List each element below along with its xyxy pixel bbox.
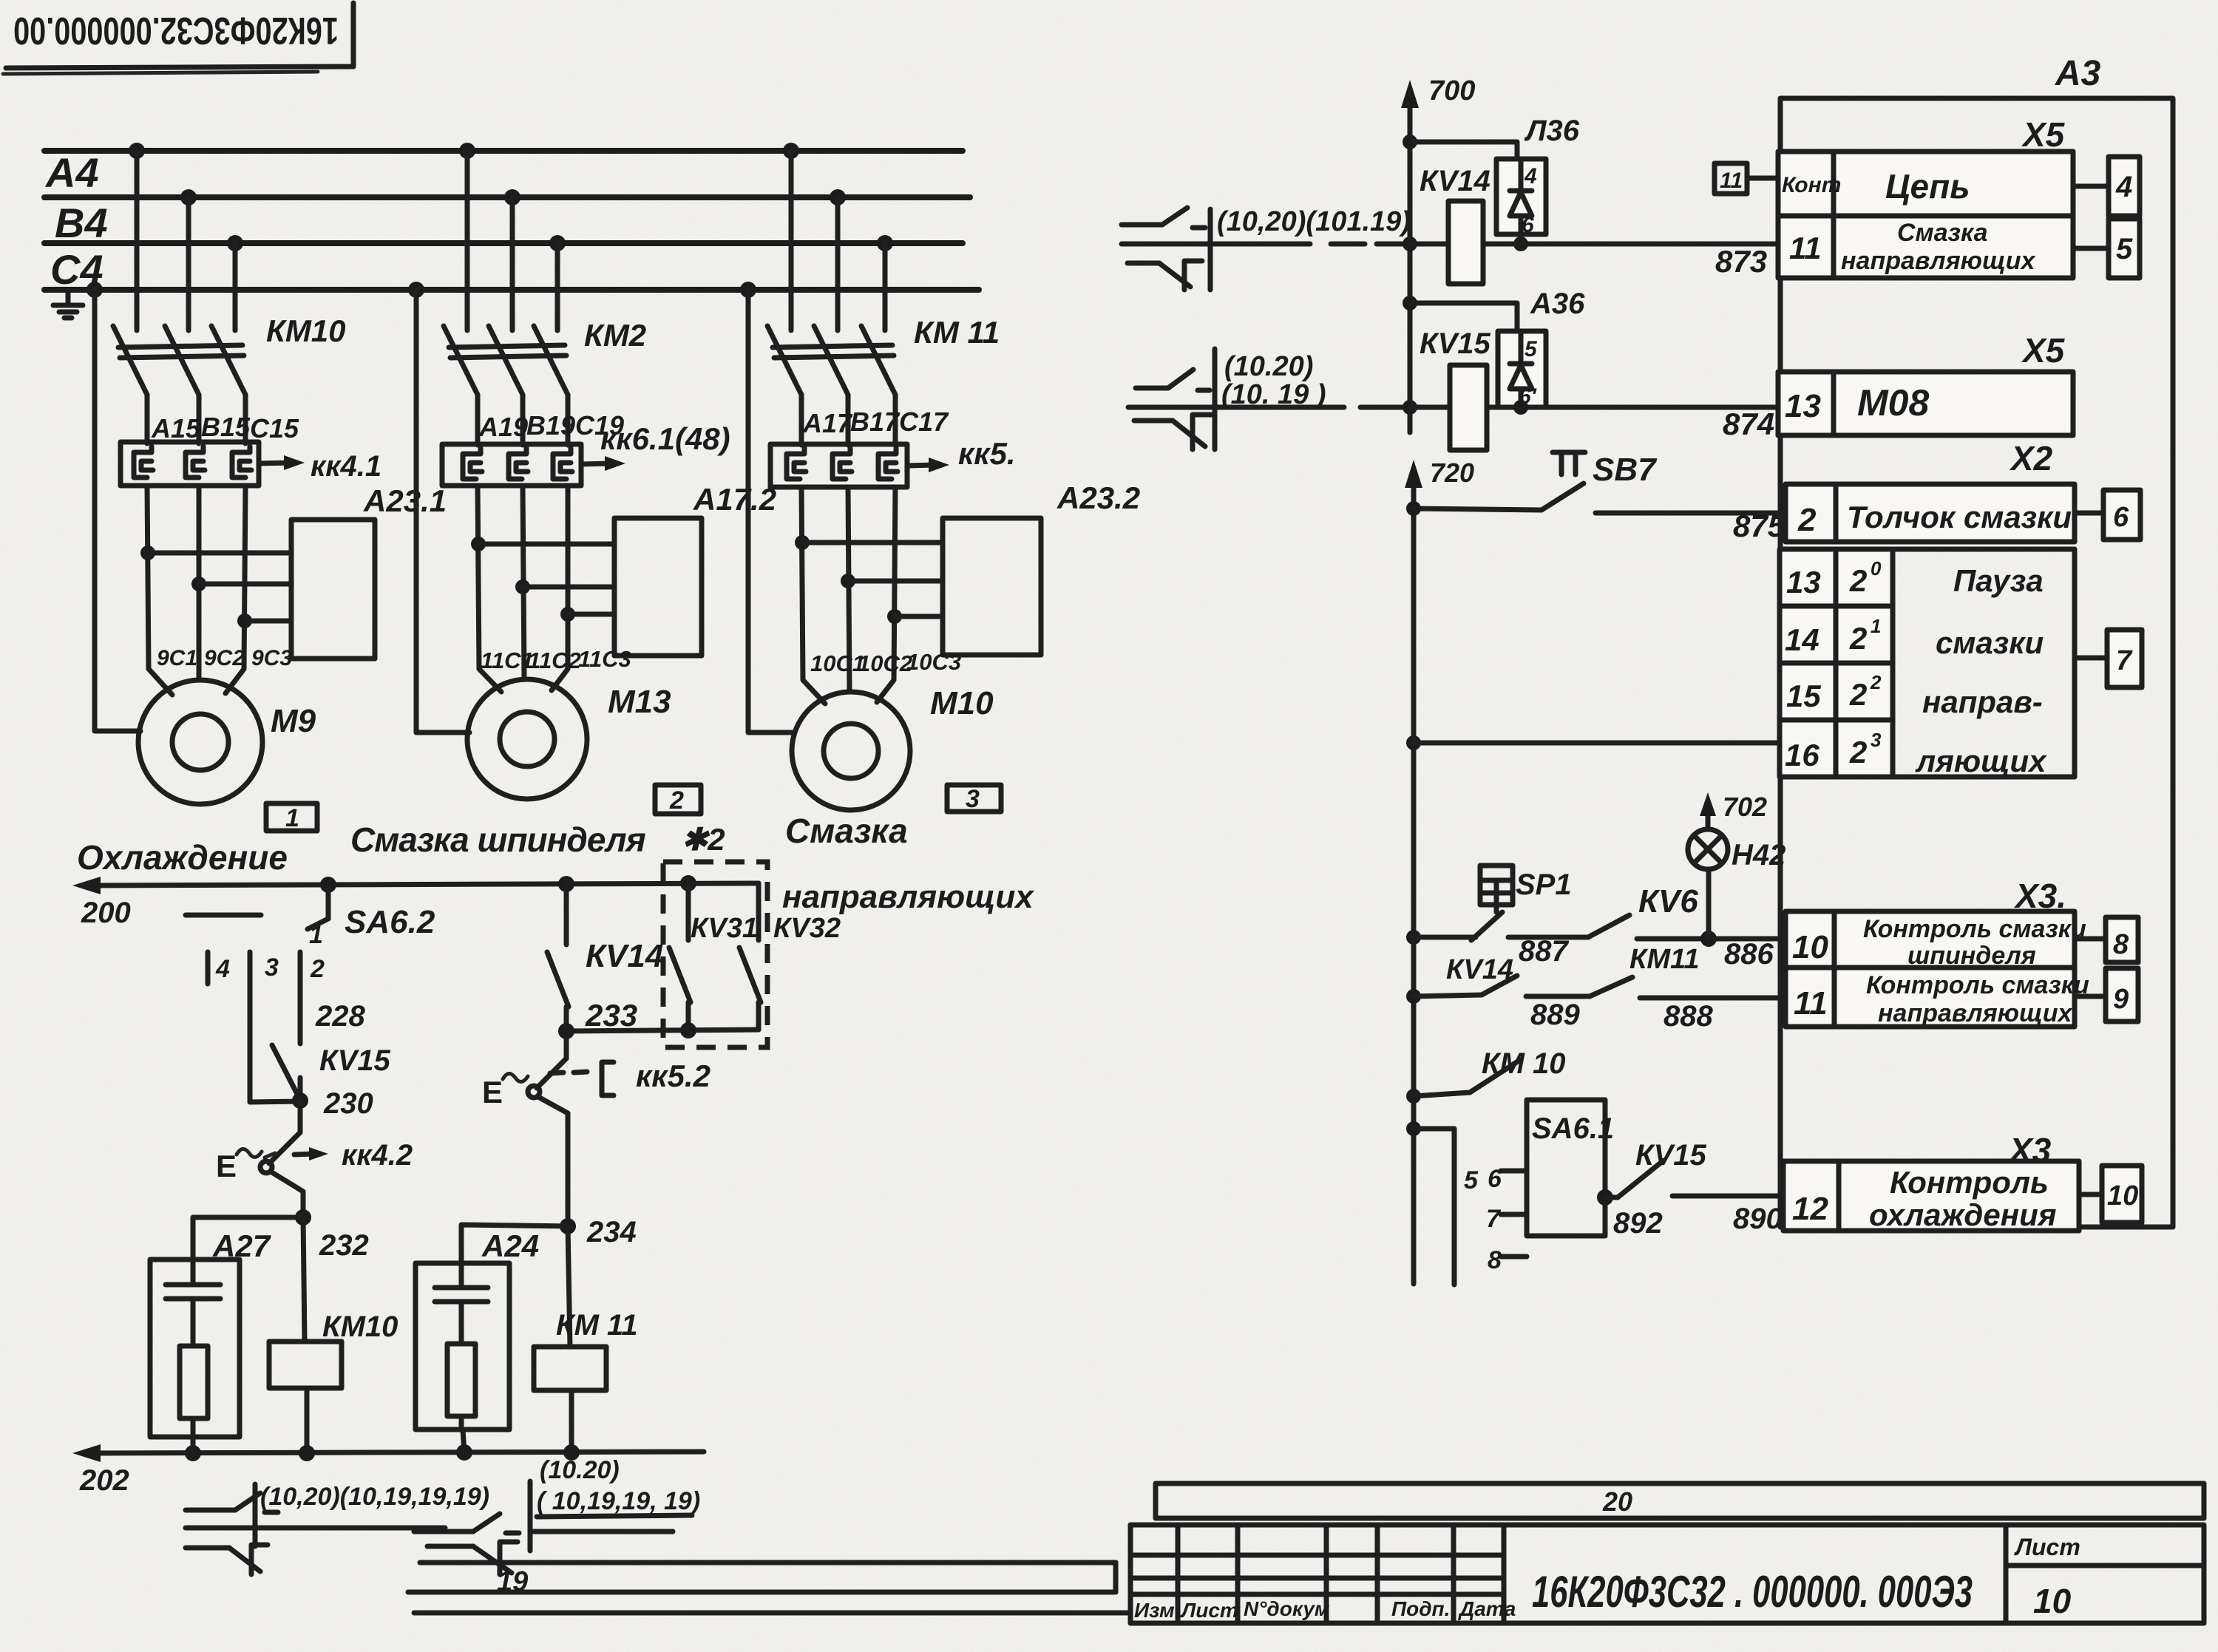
- label Контроль охлаждения: [1869, 1165, 2056, 1232]
- svg-text:А15: А15: [151, 413, 201, 443]
- svg-text:10С3: 10С3: [906, 649, 961, 675]
- svg-text:А3: А3: [2055, 54, 2101, 93]
- svg-text:5: 5: [1464, 1166, 1479, 1194]
- wire net 200 (control rail): [72, 877, 759, 894]
- contact KV32 (NO): [739, 883, 761, 1030]
- connector table X5 upper: [1778, 152, 2073, 278]
- junction dot 202/A24: [456, 1444, 472, 1461]
- callout box 1: [266, 803, 317, 832]
- junction dot C4 / M10 return line: [740, 282, 756, 298]
- junction dot pole1/A17.2: [471, 537, 486, 551]
- thermal relay KK4 heater box: [121, 442, 259, 486]
- svg-text:1: 1: [1871, 615, 1881, 637]
- wire KK4 outputs down to motor M9: [147, 486, 245, 695]
- svg-text:10С1: 10С1: [810, 650, 865, 676]
- svg-text:202: 202: [79, 1464, 129, 1497]
- svg-text:9С1: 9С1: [157, 646, 197, 670]
- svg-text:2: 2: [669, 786, 684, 815]
- svg-text:Подп.: Подп.: [1391, 1597, 1450, 1620]
- pushbutton SB7: [1414, 452, 1780, 513]
- svg-text:Смазка: Смазка: [785, 812, 908, 850]
- terminal 8: [2075, 917, 2138, 962]
- svg-text:SA6.2: SA6.2: [345, 904, 435, 940]
- svg-text:SВ7: SВ7: [1593, 452, 1658, 488]
- label Пауза смазки направляющих: [1915, 563, 2047, 778]
- junction dot C4 / M9 return line: [87, 282, 103, 298]
- svg-text:886: 886: [1724, 938, 1774, 971]
- svg-text:Охлаждение: Охлаждение: [77, 838, 288, 877]
- svg-text:1: 1: [285, 804, 299, 832]
- svg-text:Лист: Лист: [1180, 1599, 1238, 1622]
- wires poles to block A23.1: [148, 553, 291, 621]
- contact KV31 (NO): [669, 883, 691, 1030]
- svg-text:1: 1: [309, 921, 323, 949]
- svg-text:2: 2: [1849, 677, 1867, 712]
- svg-text:( 10,19,19, 19): ( 10,19,19, 19): [537, 1487, 700, 1515]
- svg-text:10С2: 10С2: [858, 650, 912, 676]
- terminal 10: [2079, 1166, 2142, 1223]
- svg-text:КМ10: КМ10: [322, 1311, 398, 1343]
- svg-text:КV14: КV14: [1446, 954, 1513, 985]
- svg-text:Пауза: Пауза: [1953, 563, 2044, 598]
- contact KV6 (NO): [1508, 915, 1780, 939]
- suppressor block A24: [416, 1263, 509, 1430]
- title block top strip with label 20: [1156, 1483, 2204, 1518]
- svg-text:Х5: Х5: [2021, 331, 2066, 370]
- pressure switch SP1: [1414, 866, 1513, 940]
- wire KK6 outputs down to motor M13: [478, 486, 568, 692]
- svg-text:КМ2: КМ2: [584, 318, 646, 353]
- wire node233 to KV31/KV32 bottoms: [566, 1030, 759, 1031]
- svg-text:А19: А19: [478, 412, 528, 442]
- svg-text:Л36: Л36: [1524, 115, 1580, 147]
- svg-text:234: 234: [586, 1216, 637, 1248]
- wire node 228: [298, 984, 303, 1044]
- wire KM11 pole drops: [791, 151, 885, 330]
- svg-text:11С3: 11С3: [578, 646, 631, 672]
- svg-text:228: 228: [315, 1000, 365, 1033]
- junction dot 200/KV14: [558, 876, 574, 892]
- wire A27 to 202: [191, 1437, 196, 1453]
- junction dot pole3/A23.2: [887, 609, 902, 624]
- callout box 3: [947, 785, 1001, 813]
- junction dot pole2/A17.2: [515, 579, 530, 594]
- svg-text:4: 4: [1524, 164, 1537, 188]
- svg-text:А17: А17: [802, 408, 853, 438]
- svg-text:Толчок смазки: Толчок смазки: [1847, 500, 2072, 534]
- svg-text:направляющих: направляющих: [782, 879, 1034, 915]
- switch SA6.1: [1501, 1100, 1605, 1257]
- svg-text:2: 2: [1849, 563, 1867, 598]
- wire 874 (KV15 coil circuit to A3): [1410, 405, 1780, 410]
- svg-text:13: 13: [1785, 388, 1821, 424]
- block A23.1: [291, 520, 375, 659]
- svg-text:SР1: SР1: [1516, 869, 1572, 901]
- wire M13 return (C4 to motor M13): [416, 290, 469, 732]
- label Смазка направляющих (2 lines): [782, 812, 1034, 915]
- svg-text:Е: Е: [216, 1149, 237, 1183]
- svg-text:890: 890: [1733, 1203, 1783, 1235]
- wire node232 to A27: [193, 1217, 303, 1260]
- contact KV15 (NO): [272, 1045, 300, 1100]
- svg-text:200: 200: [81, 897, 131, 929]
- wire KK4.2 to node 232: [271, 1172, 303, 1217]
- svg-text:Лист: Лист: [2014, 1534, 2080, 1560]
- svg-text:КМ 11: КМ 11: [556, 1309, 638, 1342]
- junction dot B4 / KM10 pole3: [227, 235, 243, 251]
- svg-text:Н42: Н42: [1732, 839, 1785, 871]
- svg-text:С15: С15: [250, 413, 299, 443]
- label Контроль смазки шпинделя: [1863, 915, 2086, 970]
- svg-text:5: 5: [1525, 337, 1538, 361]
- svg-text:С17: С17: [899, 407, 949, 437]
- junction dot bus1 / KM11 pole1: [783, 143, 799, 159]
- junction dot C4 / M13 return line: [408, 282, 424, 298]
- terminal 5: [2073, 219, 2140, 278]
- svg-text:2: 2: [1870, 671, 1882, 693]
- junction dot pole3/A17.2: [560, 607, 575, 622]
- wire diode2 top branch: [1410, 303, 1517, 331]
- svg-text:(10,20)(10,19,19,19): (10,20)(10,19,19,19): [260, 1483, 489, 1511]
- svg-text:11: 11: [1794, 985, 1828, 1022]
- block A23.2: [943, 518, 1041, 655]
- svg-text:7: 7: [1486, 1205, 1502, 1233]
- svg-text:А4: А4: [44, 149, 99, 196]
- junction dot pole2/A23.1: [191, 577, 206, 591]
- svg-text:кк5.2: кк5.2: [636, 1058, 710, 1093]
- svg-text:КМ10: КМ10: [266, 313, 346, 348]
- wire net 720 (vertical feeder): [1405, 460, 1422, 1284]
- arrow to KK5: [907, 458, 949, 472]
- motor M9: [138, 680, 262, 804]
- connector table X3 row 12: [1783, 1161, 2079, 1231]
- svg-text:16К20Ф3С32 . 000000. 000Э3: 16К20Ф3С32 . 000000. 000Э3: [1532, 1567, 1973, 1617]
- terminal 4: [2073, 157, 2140, 216]
- svg-text:Смазка шпинделя: Смазка шпинделя: [350, 820, 646, 859]
- junction dot 720/SP1 wire: [1406, 930, 1421, 945]
- diode block A36 (lower): [1498, 331, 1546, 407]
- svg-text:233: 233: [585, 998, 637, 1033]
- svg-text:Изм: Изм: [1134, 1599, 1175, 1622]
- junction dot 202/KM10: [299, 1445, 315, 1461]
- svg-text:11: 11: [1789, 231, 1822, 265]
- svg-text:кк5.: кк5.: [958, 436, 1016, 471]
- svg-text:N°докум: N°докум: [1244, 1597, 1330, 1620]
- svg-text:КМ 10: КМ 10: [1482, 1047, 1566, 1080]
- svg-text:6: 6: [2113, 502, 2129, 533]
- junction dot pole2/A23.2: [841, 574, 855, 588]
- svg-text:3: 3: [265, 954, 279, 982]
- motor M13: [467, 679, 587, 799]
- junction dot 700/diode2 branch: [1403, 296, 1417, 310]
- svg-text:КV15: КV15: [1420, 327, 1491, 360]
- connector table X2 row 2: [1785, 484, 2075, 542]
- wire KM10 pole drops: [137, 151, 235, 330]
- coil KM10: [269, 1217, 342, 1453]
- wire KM2 pole drops: [467, 151, 557, 330]
- contact KV14 (NO) on 200 rail: [547, 884, 569, 1031]
- svg-text:874: 874: [1723, 407, 1774, 441]
- svg-text:7: 7: [2116, 645, 2133, 676]
- svg-text:9: 9: [2113, 984, 2129, 1015]
- svg-text:направляющих: направляющих: [1878, 999, 2074, 1027]
- svg-text:4: 4: [2115, 171, 2132, 203]
- svg-text:В4: В4: [55, 200, 108, 246]
- wire M10 return (C4 to motor M10): [748, 290, 793, 732]
- junction dot A4 / KM10 pole2: [180, 189, 197, 205]
- label Контроль смазки направляющих: [1866, 971, 2089, 1027]
- svg-text:2: 2: [310, 955, 325, 983]
- svg-text:В19: В19: [526, 410, 575, 441]
- wire diode1 top branch: [1410, 142, 1517, 159]
- junction dot 720/SA6.1: [1406, 1121, 1421, 1136]
- switch SA6.2: [186, 885, 328, 984]
- cross-reference contact group under 202 (KM11 contacts): [414, 1481, 673, 1574]
- svg-text:(10.20): (10.20): [1224, 351, 1313, 382]
- wire to X2 pin16: [1414, 741, 1780, 746]
- svg-text:5: 5: [2116, 233, 2133, 265]
- svg-text:охлаждения: охлаждения: [1869, 1197, 2056, 1232]
- svg-text:11С1: 11С1: [481, 647, 534, 673]
- junction dot 700/diode1 branch: [1403, 135, 1417, 149]
- svg-text:892: 892: [1613, 1207, 1663, 1240]
- junction dot pole1/A23.1: [140, 545, 155, 560]
- arrow to KK6.1: [581, 456, 625, 471]
- motor M10: [792, 692, 910, 810]
- svg-text:6: 6: [1522, 213, 1534, 237]
- svg-text:875: 875: [1733, 509, 1785, 543]
- wires poles to block A23.2: [802, 543, 943, 616]
- wire KM2 poles to thermal relay: [478, 395, 568, 445]
- device block A3 outline: [1780, 98, 2173, 1227]
- bus line A4: [44, 194, 970, 200]
- connector table X5 lower (M08): [1778, 372, 2073, 435]
- svg-text:10: 10: [2033, 1582, 2072, 1620]
- svg-text:(10.20): (10.20): [540, 1456, 620, 1484]
- svg-text:✱2: ✱2: [682, 822, 725, 857]
- wire node234 to A24: [461, 1225, 568, 1263]
- svg-text:720: 720: [1430, 458, 1474, 488]
- wire net 202 (control rail bottom): [72, 1444, 704, 1462]
- thermal relay KK5 heater box: [770, 444, 907, 487]
- ground symbol on C4: [53, 290, 83, 318]
- svg-text:М08: М08: [1857, 382, 1929, 424]
- junction dot KV31 bottom: [680, 1022, 696, 1039]
- svg-text:КV14: КV14: [586, 938, 663, 974]
- title block main frame: [1130, 1525, 2204, 1623]
- svg-text:КМ11: КМ11: [1629, 944, 1699, 975]
- relay coil KV15: [1450, 365, 1487, 450]
- svg-text:0: 0: [1871, 557, 1882, 579]
- svg-text:КV31: КV31: [691, 913, 758, 944]
- svg-text:Е: Е: [482, 1075, 503, 1109]
- junction dot 202/A27: [185, 1445, 201, 1461]
- svg-text:Контроль: Контроль: [1890, 1165, 2049, 1200]
- svg-text:В17: В17: [850, 407, 901, 437]
- wire KM11 poles to thermal relay: [801, 395, 895, 445]
- svg-text:11: 11: [1720, 169, 1743, 193]
- junction dot node 230: [292, 1092, 308, 1109]
- svg-text:направляющих: направляющих: [1841, 247, 2037, 275]
- svg-text:3: 3: [1871, 729, 1882, 751]
- svg-text:16К20Ф3С32.000000.00: 16К20Ф3С32.000000.00: [13, 9, 339, 52]
- svg-text:Конт: Конт: [1782, 173, 1841, 197]
- svg-text:889: 889: [1530, 999, 1580, 1031]
- svg-text:9С2: 9С2: [204, 646, 245, 670]
- svg-text:13: 13: [1786, 565, 1821, 599]
- svg-text:М10: М10: [930, 685, 994, 721]
- label Смазка направляющих (X5 row): [1841, 219, 2037, 275]
- thermal contact KK4.2: [216, 1101, 328, 1183]
- svg-text:КV15: КV15: [319, 1044, 391, 1077]
- contactor KM11 (3-pole): [767, 326, 895, 395]
- junction dot node 892: [1597, 1189, 1613, 1206]
- svg-text:кк6.1(48): кк6.1(48): [600, 421, 730, 456]
- wire SA6.1 common pole: [1414, 1129, 1454, 1285]
- svg-text:10: 10: [2107, 1180, 2138, 1211]
- wire KK5 outputs down to motor M10: [801, 487, 895, 704]
- junction dot pole1/A23.2: [795, 535, 810, 550]
- svg-text:кк4.1: кк4.1: [311, 450, 381, 483]
- wire 873 (KV14 coil circuit to A3): [1410, 242, 1780, 247]
- svg-text:232: 232: [319, 1229, 369, 1262]
- callout box 2: [655, 785, 701, 815]
- svg-text:888: 888: [1663, 1000, 1713, 1033]
- terminal 7: [2075, 630, 2142, 687]
- svg-text:Х2: Х2: [2009, 439, 2053, 477]
- svg-text:шпинделя: шпинделя: [1907, 942, 2036, 970]
- svg-text:14: 14: [1785, 622, 1819, 657]
- svg-text:8: 8: [1488, 1246, 1502, 1274]
- contactor KM2 (3-pole): [444, 326, 568, 395]
- junction dot node 233: [558, 1023, 574, 1039]
- svg-text:230: 230: [323, 1087, 373, 1120]
- junction dot pole3/A23.1: [237, 613, 252, 628]
- svg-text:9С3: 9С3: [251, 646, 292, 670]
- svg-text:2: 2: [1849, 735, 1867, 769]
- wire M9 return (C4 to motor M9): [95, 290, 140, 731]
- junction dot A4 / KM11 pole2: [830, 189, 846, 205]
- svg-text:смазки: смазки: [1936, 625, 2044, 660]
- junction dot 202/KM11: [563, 1444, 580, 1461]
- svg-text:6: 6: [1488, 1165, 1502, 1193]
- svg-text:12: 12: [1792, 1191, 1828, 1227]
- contact KV14 (NO) lower: [1414, 976, 1590, 996]
- svg-text:Контроль смазки: Контроль смазки: [1866, 971, 2089, 999]
- junction dot diode1 / wire873: [1513, 237, 1528, 251]
- svg-text:3: 3: [966, 785, 980, 813]
- svg-text:10: 10: [1792, 929, 1828, 965]
- junction dot 200/SA6.2: [320, 877, 336, 893]
- svg-text:Контроль смазки: Контроль смазки: [1863, 915, 2086, 943]
- svg-text:А27: А27: [212, 1228, 271, 1263]
- svg-text:КМ 11: КМ 11: [914, 315, 1000, 350]
- svg-text:20: 20: [1602, 1486, 1632, 1517]
- bus line B4: [44, 240, 963, 246]
- thermal contact KK5.2: [482, 1031, 614, 1109]
- junction dot 720/SB7: [1406, 501, 1421, 516]
- svg-text:КV15: КV15: [1635, 1139, 1707, 1172]
- dashed option box *2: [663, 862, 767, 1047]
- bus line 1 (top phase bus): [44, 148, 963, 154]
- junction dot A4 / KM2 pole2: [504, 189, 520, 205]
- coil KM11: [534, 1226, 606, 1453]
- svg-text:15: 15: [1786, 679, 1821, 713]
- svg-text:SА6.1: SА6.1: [1532, 1112, 1614, 1145]
- wire A24 to 202: [463, 1430, 464, 1453]
- wire net 700 (vertical feeder): [1401, 80, 1419, 432]
- svg-text:700: 700: [1428, 75, 1475, 106]
- wire KK5.2 to node 234: [538, 1097, 568, 1226]
- junction dot 700/wire873: [1403, 237, 1417, 251]
- block A17.2: [614, 518, 702, 656]
- arrow to KK4.1: [259, 455, 305, 470]
- junction dot node 232: [295, 1209, 311, 1226]
- junction dot diode2 / wire874: [1513, 400, 1528, 415]
- svg-text:887: 887: [1519, 935, 1569, 968]
- svg-text:Х5: Х5: [2021, 115, 2066, 154]
- cross-reference contact group for KV14 (middle): [1122, 208, 1403, 290]
- contact KM11 (NO aux): [1590, 977, 1780, 998]
- svg-text:19: 19: [497, 1566, 528, 1597]
- X2 binary rows 13,14,15,16: [1780, 549, 2075, 777]
- svg-text:2: 2: [1849, 621, 1867, 656]
- svg-text:4: 4: [215, 955, 230, 983]
- svg-text:2: 2: [1797, 502, 1817, 538]
- wire KM10 poles to thermal relay: [147, 395, 245, 443]
- terminal tag 11 (left): [1715, 163, 1778, 194]
- svg-text:ляющих: ляющих: [1915, 744, 2047, 778]
- bus line C4: [44, 287, 979, 293]
- thermal relay KK6 heater box: [442, 444, 581, 486]
- svg-text:КV6: КV6: [1638, 883, 1698, 920]
- svg-text:М9: М9: [271, 703, 316, 739]
- svg-text:А17.2: А17.2: [693, 482, 776, 517]
- terminal 9: [2075, 968, 2138, 1022]
- svg-text:КV32: КV32: [773, 913, 841, 944]
- svg-text:873: 873: [1715, 244, 1767, 279]
- cross-reference contact group under 202 (KM10 contacts): [186, 1484, 445, 1574]
- contact KM10 (NO aux stub): [1414, 1060, 1520, 1096]
- junction dot B4 / KM11 pole3: [877, 235, 893, 251]
- junction dot bus1 / KM10 pole1: [129, 143, 145, 159]
- junction dot 200/KV31: [680, 875, 696, 891]
- wire SA6.2 pin3 to node 230: [250, 984, 299, 1102]
- junction dot 720/KV14 contact wire: [1406, 989, 1421, 1004]
- svg-text:702: 702: [1723, 792, 1767, 822]
- svg-text:(10. 19 ): (10. 19 ): [1221, 379, 1326, 410]
- junction dot bus1 / KM2 pole1: [459, 143, 475, 159]
- svg-text:А36: А36: [1530, 288, 1585, 320]
- junction dot B4 / KM2 pole3: [549, 235, 566, 251]
- suppressor block A27: [150, 1260, 240, 1437]
- contact KV15 (NO) to X3: [1605, 1160, 1783, 1197]
- svg-text:А23.1: А23.1: [363, 483, 447, 518]
- svg-text:(10,20)(101.19): (10,20)(101.19): [1217, 206, 1411, 237]
- svg-text:8: 8: [2113, 929, 2129, 960]
- terminal 6: [2075, 490, 2140, 540]
- svg-text:КV14: КV14: [1420, 165, 1490, 197]
- junction dot 700/wire874: [1403, 400, 1417, 415]
- svg-text:кк4.2: кк4.2: [342, 1139, 413, 1172]
- stamp: mirrored bleed-through document number box (top-left): [3, 3, 353, 74]
- svg-text:направ-: направ-: [1922, 684, 2043, 719]
- lamp H42: [1688, 792, 1728, 939]
- long reference lines to title block: [408, 1563, 1130, 1613]
- junction dot lamp/wire886: [1700, 931, 1717, 947]
- contactor KM10 (3-pole): [113, 326, 245, 395]
- relay coil KV14: [1448, 201, 1483, 284]
